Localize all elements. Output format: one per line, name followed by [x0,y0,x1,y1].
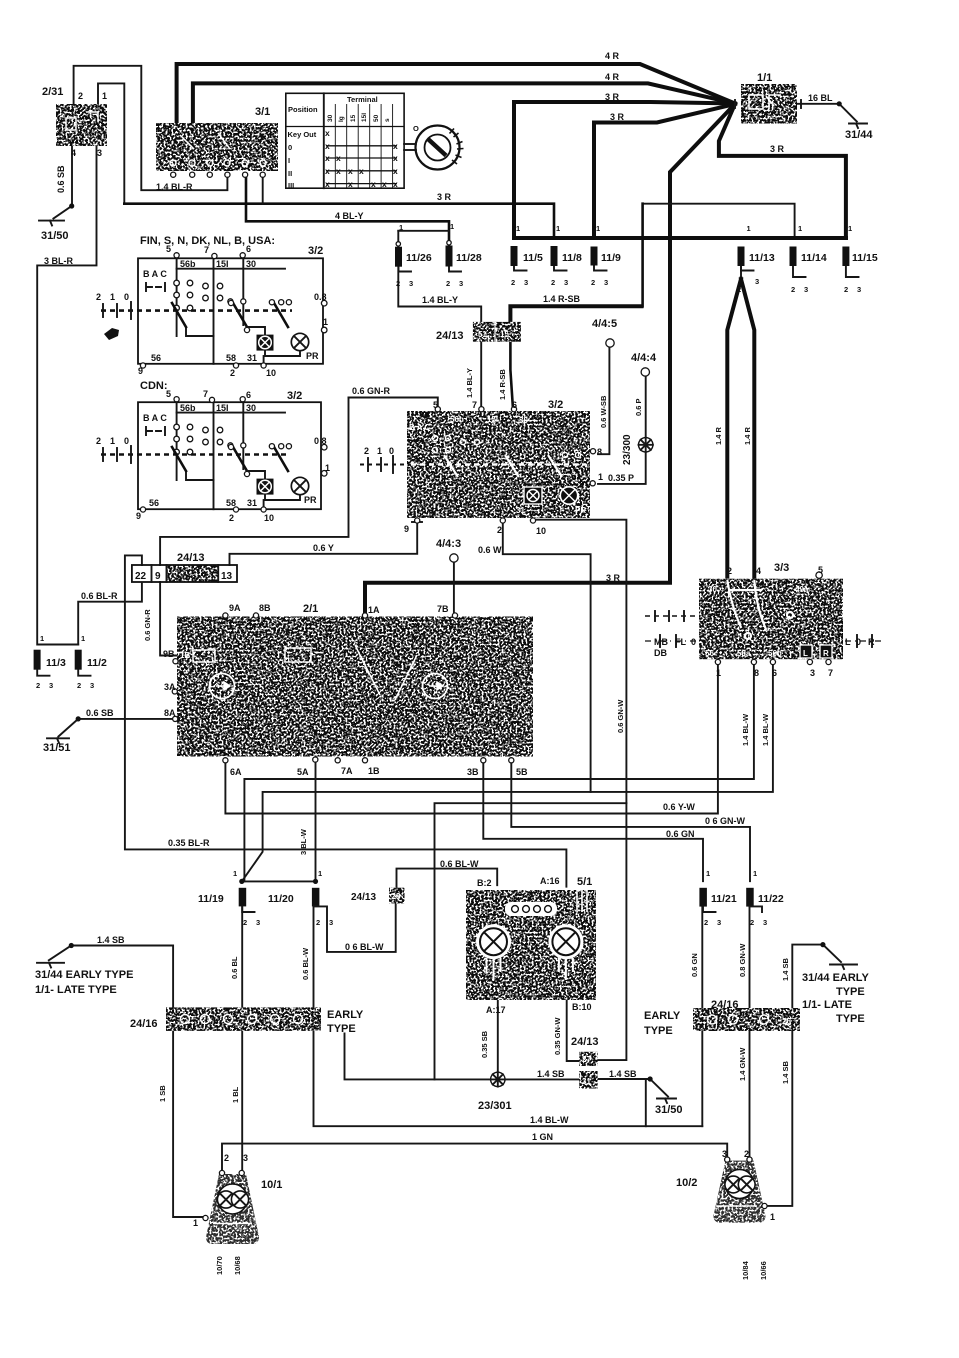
fuse 11/21 [699,888,707,907]
3/2 USA pin labels [364,400,603,536]
labels B:2 A:16 5/1 [477,876,592,888]
svg-text:0: 0 [691,637,696,647]
3/2 USA white internals [409,415,586,515]
labels 11/21 11/22 [711,893,784,905]
svg-text:11/13: 11/13 [749,252,775,264]
svg-text:0.6 GN-R: 0.6 GN-R [143,609,152,641]
svg-text:3: 3 [90,681,94,690]
svg-text:0: 0 [856,637,861,647]
svg-text:56: 56 [705,649,714,658]
connector 24/16 strips white marks [181,1015,769,1025]
3/2 CDN switch arms [172,444,327,477]
svg-text:2: 2 [229,513,234,523]
wire bus 0.6 GN-W (2/1 pin5B to fuse 11/22) [511,761,750,881]
svg-text:3/2: 3/2 [308,245,323,257]
svg-text:31/44 EARLY TYPE: 31/44 EARLY TYPE [35,969,133,981]
svg-text:II: II [288,169,292,178]
headlamp 10/1 [203,1170,259,1244]
wire 1.4 SB (24/13 cell31 to ground 31/50) [598,1079,668,1097]
svg-text:7A: 7A [341,766,353,776]
wire 0.6 BL-W (24/13 cell28 to 5/1 B:2) [397,869,498,888]
node junction 11/20 pin1 [313,879,318,884]
wire bus 0.6 GN-W (3/2 pin10 down to 23/301 line) [435,518,627,1079]
svg-text:0.8: 0.8 [314,292,327,302]
svg-text:3: 3 [329,918,333,927]
svg-text:s: s [384,118,391,122]
light switch 3/2 CDN outline [138,402,321,509]
svg-text:56b: 56b [768,649,782,658]
connector 4/4:5 [606,339,614,347]
connector 24/13 cell27-31 body [579,1052,597,1066]
svg-text:A:16: A:16 [540,876,560,886]
svg-text:27: 27 [582,1055,591,1064]
wire 4 R (3/1 to 1/1) line B [193,83,735,124]
wire 1.4 SB (23/301 line to 24/13 cell31) [345,1033,580,1079]
3/2 FIN position dashed line [101,302,292,319]
fuse 11/15 [842,247,849,267]
svg-text:1: 1 [753,869,757,878]
svg-text:31/50: 31/50 [655,1104,683,1116]
svg-text:4: 4 [756,566,761,576]
svg-text:6A: 6A [230,767,242,777]
svg-text:6: 6 [246,390,251,400]
3/2 FIN contact circles [174,280,223,311]
svg-text:2: 2 [230,368,235,378]
fuse pin brackets 2-3 [37,267,858,913]
relay 1/1 pins [735,100,801,108]
3/2 FIN pin labels [96,244,328,378]
svg-text:0.35 P: 0.35 P [608,473,634,483]
wire 0.6 W (4/4:3 to 2/1 pin7B) [453,562,455,617]
svg-text:11/3: 11/3 [46,657,66,669]
svg-text:3/3: 3/3 [774,562,789,574]
svg-text:3: 3 [243,1153,248,1163]
wire bus 0.6 Y-W (2/1 pin6A to 3/3 pin1) [225,664,718,814]
wire 3 R (fuse 11/5 to 1/1) line C [514,102,735,238]
svg-text:31/44: 31/44 [845,129,873,141]
svg-text:FL: FL [675,637,686,647]
svg-text:0.6 GN: 0.6 GN [690,953,699,977]
svg-text:0.6 GN-W: 0.6 GN-W [616,699,625,733]
3/2 USA bottom pins [415,518,536,523]
2/1 left pin circles [172,659,178,722]
ground 31/50 top left [39,221,64,226]
node junction 0.6SB [76,716,81,721]
fuse 11/8 [551,246,558,266]
svg-text:23/301: 23/301 [478,1100,512,1112]
3/2 FIN hand symbol [104,328,119,340]
svg-text:31/44 EARLY: 31/44 EARLY [802,972,870,984]
svg-text:2: 2 [844,285,848,294]
fuse 11/14 [790,247,797,267]
wire bus A (11/19 to 3/3 pin8) [244,664,754,881]
wire 4 BL-Y (3/1 pin5 to fuses 11/26 11/28) [246,174,449,247]
svg-text:1: 1 [596,224,600,233]
fuse 11/19 11/20 pin1 labels [233,869,322,878]
svg-text:56: 56 [151,353,161,363]
connector 24/13 strip middle cell [168,565,218,582]
3/2 CDN pin labels [96,389,330,523]
svg-text:3: 3 [722,1149,727,1159]
svg-text:1: 1 [716,668,721,678]
svg-text:10: 10 [536,526,546,536]
svg-text:24/13: 24/13 [351,892,376,903]
fuse 11/28 [446,246,453,267]
relay 1/1 body [741,84,797,124]
10/1 pin labels [193,1153,248,1228]
svg-text:5: 5 [166,244,171,254]
connector 24/13 strip 22-9-13 outline [132,565,237,582]
svg-text:0.6 Y-W: 0.6 Y-W [663,802,695,812]
svg-text:B:2: B:2 [477,878,492,888]
svg-text:1: 1 [747,224,751,233]
svg-text:TYPE: TYPE [836,986,865,998]
svg-text:28: 28 [392,892,401,901]
svg-text:51: 51 [478,330,487,339]
svg-text:7: 7 [203,389,208,399]
wire 0.6 Y (24/13 cell13 to 3/2 pin9) [230,522,423,565]
connector 4/4:4 [641,368,649,376]
svg-text:1 BL: 1 BL [231,1086,240,1103]
3/2 CDN top pins [174,397,245,403]
fuse name labels row1 [406,252,878,264]
fuse 11/3 11/2 bottom pin labels [36,681,94,690]
wire 0.35 SB (5/1 A:17 to 23/301) [497,1000,499,1072]
fuse 11/19 [239,888,247,907]
svg-text:22: 22 [135,571,147,582]
svg-text:PR: PR [575,506,586,515]
svg-text:L: L [803,649,808,658]
lamp symbol 23/300 [639,438,653,452]
svg-text:1: 1 [399,223,403,232]
svg-text:0.6 SB: 0.6 SB [56,165,66,193]
wire 0.6 GN-R (24/13 cell9 to 2/1 pin 9B) [160,582,178,656]
headlamp relay 2/1 white internals [180,645,448,700]
svg-text:5: 5 [818,565,823,575]
svg-text:58: 58 [226,353,236,363]
svg-text:7B: 7B [437,604,449,614]
wire 3 BL-W (2/1 pin5A to fuse 11/20) [315,760,317,881]
svg-text:2: 2 [96,436,101,446]
svg-text:10/68: 10/68 [233,1256,242,1275]
svg-text:11/5: 11/5 [523,252,543,264]
wire 0.6 BL-W (fuse 11/20 pin3 to 24/13 cell28) [327,903,396,952]
wire 1.4 SB (ground 31/44 early to 10/1 pin1) [49,946,204,1218]
2/1 top pin circles [223,613,458,618]
svg-text:5B: 5B [516,767,528,777]
svg-text:R: R [868,637,875,647]
svg-text:31: 31 [582,1077,591,1086]
svg-text:7: 7 [828,668,833,678]
svg-text:1.4 GN-W: 1.4 GN-W [738,1047,747,1081]
labels 1.4 SB pair at 24/13 [537,1069,637,1079]
svg-text:5: 5 [433,400,438,410]
svg-text:Position: Position [288,105,318,114]
svg-text:3: 3 [256,918,260,927]
label 31/44 EARLY TYPE right [802,972,870,1025]
ground 31/44 early right [830,965,857,970]
svg-text:1.4 SB: 1.4 SB [781,1060,790,1084]
svg-text:0 6 GN-W: 0 6 GN-W [705,816,746,826]
fuse 11/26 [395,247,402,267]
wire bus 0.6 GN (2/1 pin3B to fuse 11/21) [483,761,703,881]
svg-text:11/28: 11/28 [456,252,482,264]
svg-text:1: 1 [706,869,710,878]
svg-text:31/50: 31/50 [41,230,69,242]
svg-text:3A: 3A [164,682,176,692]
svg-text:DB: DB [654,648,667,658]
fuse 11/21 11/22 pin1 labels [706,869,757,878]
svg-text:1.4 SB: 1.4 SB [537,1069,565,1079]
ground 31/50 bottom [657,1099,676,1104]
labels 11/19 11/20 [198,893,294,905]
svg-text:3 R: 3 R [770,144,785,154]
connector 24/13 51-15 body [473,322,521,342]
svg-text:1: 1 [598,472,603,482]
svg-text:0.6 GN: 0.6 GN [666,829,695,839]
3/2 CDN lamp PR [257,477,309,494]
svg-text:3: 3 [755,277,759,286]
svg-text:16 BL: 16 BL [808,93,833,103]
svg-text:0.6 BL-W: 0.6 BL-W [301,947,310,980]
svg-text:58: 58 [226,498,236,508]
svg-text:15I: 15I [216,259,229,269]
wire link 11/19 to 11/20 [242,880,316,882]
fuse 11/9 [591,247,598,266]
svg-text:24/16: 24/16 [711,999,739,1011]
svg-text:3B: 3B [467,767,479,777]
3/2 FIN BAC dash marks [146,283,165,291]
svg-text:3 R: 3 R [610,112,625,122]
svg-text:1.4 BL-W: 1.4 BL-W [741,713,750,746]
3/3 outside labels [654,637,875,658]
svg-text:4/4:4: 4/4:4 [631,352,657,364]
svg-text:I: I [288,156,290,165]
wire 0.6 SB (2/31 pin4 to ground 31/50) [53,146,72,219]
svg-text:1.4 R-SB: 1.4 R-SB [498,369,507,400]
svg-text:11/9: 11/9 [601,252,621,264]
wire 0.6 W-SB (4/4:5 to 3/2 pin8) [598,347,609,454]
svg-text:1: 1 [556,224,560,233]
connector 24/13 cell28 body [389,888,405,904]
svg-text:0 6 BL-W: 0 6 BL-W [345,942,384,952]
relay 2/31 body [56,104,107,146]
svg-text:3: 3 [810,668,815,678]
svg-text:8: 8 [597,447,602,457]
labels 11/3 11/2 [46,657,107,669]
3/2 CDN bottom pins [140,471,300,512]
svg-text:0: 0 [389,446,394,456]
svg-text:1.4 R: 1.4 R [743,426,752,445]
labels 10/70 10/68 vertical [215,1256,242,1275]
fuse 11/3 [34,650,41,670]
wire 3 R (1/1 to fuse 11/15) [719,104,846,238]
wire 1.4 GN-W (fuse 11/22 to 10/2 pin2) [749,906,751,1161]
svg-text:4 BL-Y: 4 BL-Y [335,211,364,221]
3/2 FIN lamp PR [257,333,309,350]
svg-text:56b: 56b [450,415,464,424]
3/2 CDN position dashed line [101,446,290,463]
svg-text:11/15: 11/15 [852,252,878,264]
wire 3 R (1/1 down to 2/1 pin 1A) [365,104,735,617]
wire 3 R horizontal to 11/14 [643,204,795,307]
svg-text:TYPE: TYPE [836,1013,865,1025]
svg-text:4/4:5: 4/4:5 [592,318,617,330]
svg-text:2: 2 [364,446,369,456]
wire 3/1 pin6 stub to 3R bus [262,174,264,204]
3/2 FIN switch arms [172,300,327,333]
labels 1 SB 1 BL vertical [158,1085,240,1103]
wire 3 R (2/31 pin1 to fuse 11/8) [98,83,554,238]
svg-text:0.35 BL-R: 0.35 BL-R [168,838,210,848]
svg-text:3 BL-R: 3 BL-R [44,256,74,266]
label EARLY TYPE left strip [327,1009,364,1035]
svg-text:2: 2 [316,918,320,927]
svg-text:0 8: 0 8 [314,436,327,446]
table link to key [404,144,416,150]
svg-text:31: 31 [247,498,257,508]
svg-text:10: 10 [266,368,276,378]
svg-text:x: x [325,128,330,138]
svg-text:0.6 BL-W: 0.6 BL-W [440,859,479,869]
svg-text:1.4 SB: 1.4 SB [609,1069,637,1079]
svg-text:15I: 15I [487,415,498,424]
svg-text:9B: 9B [163,649,175,659]
svg-text:2: 2 [243,918,247,927]
node junction 2/31 pin4 [69,203,74,208]
wire 1.4 BL-Y (11/26 to 24/13 and 3/2 pin7) [398,268,481,410]
wire 3 R (fuse 11/9 to 1/1) line D [594,104,735,238]
svg-text:2: 2 [96,292,101,302]
svg-text:2: 2 [36,681,40,690]
svg-text:3: 3 [857,285,861,294]
svg-text:Ig: Ig [338,116,345,122]
svg-text:3 R: 3 R [606,573,621,583]
connector 24/13 cell27-31 white labels [582,1055,591,1086]
svg-text:9: 9 [138,366,143,376]
headlamp relay 2/1 body [177,617,533,757]
svg-text:2: 2 [396,279,400,288]
svg-text:6: 6 [246,244,251,254]
wire 3 BL-R (2/31 pin3 to fuse 11/3) [37,146,96,645]
label EARLY TYPE right strip [644,1010,681,1037]
ignition switch 3/1 body [156,123,278,171]
svg-text:1: 1 [81,634,85,643]
svg-text:9: 9 [155,571,161,582]
fuse 11/26 top pin circles [396,241,451,247]
svg-text:2: 2 [224,1153,229,1163]
2/31 pin numbers [71,91,107,158]
light switch 3/2 FIN outline [138,258,323,364]
node junction 11/19 pin1 [239,879,244,884]
labels 1.4 BL-W vertical pair [741,713,770,746]
svg-text:11/14: 11/14 [801,252,827,264]
svg-text:O: O [413,124,419,133]
connector 4/4:3 [450,554,458,562]
node junction 1.4SB bottom [648,1076,653,1081]
svg-text:7: 7 [204,245,209,255]
svg-text:3: 3 [409,279,413,288]
svg-text:0.6 P: 0.6 P [634,398,643,416]
svg-text:15I: 15I [361,113,368,122]
svg-text:24/13: 24/13 [436,330,464,342]
10/2 pin labels [722,1149,775,1222]
svg-text:6: 6 [772,668,777,678]
fuse 11/22 [746,888,754,907]
svg-text:11/22: 11/22 [758,893,784,905]
svg-text:13: 13 [221,571,233,582]
svg-text:2: 2 [750,918,754,927]
wire 0.35 GN-W (5/1 B:10 to 24/13 cell27) [567,1001,580,1061]
svg-text:50: 50 [373,114,380,122]
svg-text:3 R: 3 R [605,92,620,102]
svg-text:9: 9 [404,524,409,534]
svg-text:TYPE: TYPE [644,1025,673,1037]
svg-text:CDN:: CDN: [140,380,168,392]
3/2 USA right pins [590,449,596,486]
3/2 CDN contact circles [174,424,223,455]
wire 0.6 BL-R (24/13 cell22 to fuse 11/2) [38,584,142,645]
wire 1.4 BL-R (2/31 pin2 to 3/1 pin4) [74,66,228,190]
svg-text:2: 2 [591,278,595,287]
svg-text:4 R: 4 R [605,72,620,82]
wire 1.4 R-SB (bus to 24/13 and 3/2 pin6) [510,306,641,409]
svg-text:1: 1 [770,1212,775,1222]
svg-text:15: 15 [500,330,509,339]
svg-text:2: 2 [551,278,555,287]
node junction 1.4SB left [69,943,74,948]
svg-text:1.4 SB: 1.4 SB [97,935,125,945]
svg-text:3: 3 [763,918,767,927]
svg-text:11/2: 11/2 [87,657,107,669]
wire 16 BL (1/1 to ground 31/44) [797,104,857,122]
svg-text:1/1: 1/1 [757,72,772,84]
svg-text:EARLY: EARLY [644,1010,681,1022]
wire 0.6 SB (2/1 pin 8A to ground 31/51) [58,719,176,737]
svg-text:26: 26 [782,1017,791,1026]
wire 4 R (3/1 to 1/1) line A [177,64,735,124]
svg-text:B:10: B:10 [572,1002,592,1012]
svg-text:1: 1 [450,222,454,231]
light switch 3/2 USA body [407,411,590,518]
svg-text:EARLY: EARLY [327,1009,364,1021]
2/1 pin labels top [229,603,449,615]
3/3 outside dash-dot lines [645,611,884,647]
svg-text:2: 2 [497,525,502,535]
3/3 bottom pin circles [715,659,831,664]
3/2 CDN BAC dash marks [146,427,165,435]
svg-text:15: 15 [350,114,357,122]
svg-text:56: 56 [149,498,159,508]
svg-text:2: 2 [791,285,795,294]
svg-text:0.6 SB: 0.6 SB [86,708,114,718]
svg-text:5A: 5A [297,767,309,777]
svg-text:3: 3 [564,278,568,287]
svg-text:3: 3 [97,148,102,158]
2/1 pin labels bottom [230,766,528,777]
svg-text:1B: 1B [180,651,190,660]
svg-text:1 GN: 1 GN [532,1132,553,1142]
fuse 11/13 [738,247,745,267]
svg-text:4: 4 [71,148,76,158]
svg-text:1.4 BL-Y: 1.4 BL-Y [422,295,458,305]
svg-text:11/20: 11/20 [268,893,294,905]
svg-text:1: 1 [323,317,328,327]
svg-text:2: 2 [78,91,83,101]
svg-text:1 SB: 1 SB [158,1085,167,1102]
svg-text:4/4:3: 4/4:3 [436,538,461,550]
svg-text:11/21: 11/21 [711,893,737,905]
